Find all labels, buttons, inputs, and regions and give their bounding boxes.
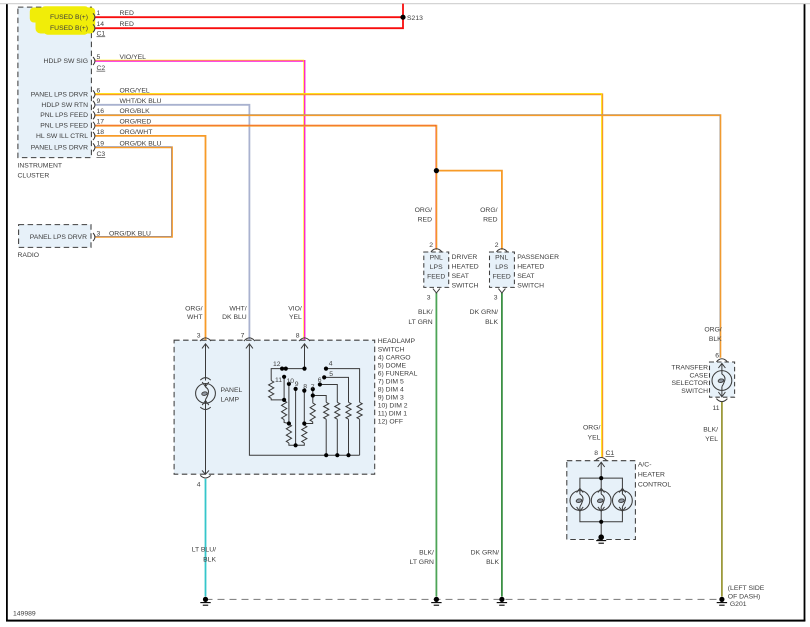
svg-text:VIO/YEL: VIO/YEL: [120, 54, 147, 61]
passenger seat switch pin 3 exit arrow: [498, 289, 505, 293]
resistor R8 (DOME position): [346, 402, 351, 419]
ground bus dashed wire: [206, 598, 722, 600]
cluster pin 16 bracket: [93, 111, 95, 119]
svg-text:ORG/: ORG/: [480, 207, 497, 214]
svg-text:PNL: PNL: [430, 254, 443, 261]
resistor R1 (node 12 to node 11): [269, 381, 274, 399]
svg-text:PANEL LPS DRVR: PANEL LPS DRVR: [31, 144, 88, 151]
a/c-heater bottom bus dot: [599, 520, 603, 524]
wire WHT/DK BLU pin9 to headlamp switch pin7: [95, 105, 249, 340]
svg-text:ORG/RED: ORG/RED: [120, 119, 152, 126]
node 12 bus wire: [271, 369, 304, 381]
passenger heated seat switch box: [490, 252, 515, 287]
svg-text:PNL LPS FEED: PNL LPS FEED: [40, 123, 88, 130]
svg-text:BLK: BLK: [709, 336, 722, 343]
wire BLK/YEL transfer case to ground G201: [721, 401, 723, 597]
svg-text:WHT: WHT: [187, 314, 202, 321]
a/c-heater bottom bus wire: [580, 511, 623, 522]
wire BLK/LT GRN driver seat to ground: [435, 293, 437, 597]
headlamp switch pin 8 entry arc: [299, 338, 310, 341]
page frame border right: [804, 4, 806, 622]
svg-text:RADIO: RADIO: [18, 252, 40, 259]
a/c-heater lamp 2: [591, 491, 611, 511]
svg-text:12) OFF: 12) OFF: [378, 418, 403, 425]
svg-text:14: 14: [97, 21, 105, 28]
svg-text:SEAT: SEAT: [517, 273, 534, 280]
cluster pin 19 bracket: [93, 143, 95, 151]
node 11 chain junction dot: [282, 398, 286, 402]
svg-text:FUSED B(+): FUSED B(+): [50, 14, 88, 21]
panel lamp bottom arrow: [202, 401, 209, 406]
svg-text:(LEFT SIDE: (LEFT SIDE: [728, 585, 765, 592]
svg-text:ORG/DK BLU: ORG/DK BLU: [120, 140, 162, 147]
svg-text:SELECTOR: SELECTOR: [671, 380, 708, 387]
a/c lamp 1 arrows: [577, 488, 584, 492]
node 9 dot: [294, 387, 298, 391]
svg-text:17: 17: [97, 119, 105, 126]
node 8 chain junction dot: [302, 421, 306, 425]
wiper bus dot R7: [335, 453, 339, 457]
wire R1 bottom to node 11 junction: [271, 398, 284, 400]
svg-text:6: 6: [318, 377, 322, 384]
node 5 dot: [322, 375, 326, 379]
svg-text:4: 4: [197, 481, 201, 488]
svg-text:ORG/BLK: ORG/BLK: [120, 108, 151, 115]
svg-text:5) DOME: 5) DOME: [378, 362, 407, 369]
wire ORG/YEL pin6 to a/c-heater control: [95, 94, 602, 457]
headlamp switch pin 4 exit arc: [200, 475, 210, 478]
svg-text:BLK/: BLK/: [419, 550, 434, 557]
wire VIO/YEL pin5 to headlamp switch pin8: [95, 61, 304, 340]
wire panel lamp branch top: [205, 344, 207, 381]
svg-text:HEATER: HEATER: [638, 472, 665, 479]
page frame border bottom: [6, 620, 805, 622]
svg-text:BLK: BLK: [203, 557, 216, 564]
resistor R2 (node 11 to node 10): [282, 401, 287, 420]
svg-text:LPS: LPS: [495, 264, 508, 271]
headlamp switch pin 4 exit arrow: [202, 470, 209, 474]
resistor R5 (node 8 junction up to node 7): [310, 403, 315, 422]
svg-text:C2: C2: [97, 65, 106, 72]
ground symbol under passenger seat wire: [497, 597, 507, 605]
driver seat switch pin 2 entry arc: [431, 249, 442, 252]
svg-text:1: 1: [97, 10, 101, 17]
instrument cluster box: [18, 7, 92, 158]
wire node 6 to parallel resistor R7: [320, 385, 337, 403]
a/c lamp 2 arrows: [598, 488, 605, 492]
node 6 dot: [318, 382, 322, 386]
svg-text:BLK/: BLK/: [418, 309, 433, 316]
svg-text:WHT/: WHT/: [229, 306, 246, 313]
a/c-heater control pin 8 arrow: [598, 462, 605, 467]
a/c-heater feed wire to bus: [600, 462, 602, 478]
svg-text:PANEL: PANEL: [221, 387, 243, 394]
svg-text:19: 19: [97, 140, 105, 147]
a/c-heater control box: [567, 461, 636, 540]
wire R9 bottom to wiper bus: [359, 419, 361, 455]
svg-text:FEED: FEED: [493, 273, 511, 280]
svg-text:C1: C1: [97, 30, 106, 37]
svg-text:LPS: LPS: [430, 264, 443, 271]
svg-text:ORG/: ORG/: [704, 326, 721, 333]
svg-text:9) DIM 3: 9) DIM 3: [378, 394, 404, 401]
page frame border top (light): [0, 2, 810, 5]
svg-text:VIO/: VIO/: [288, 306, 302, 313]
ground G201: [717, 597, 727, 605]
cluster pin 6 bracket: [93, 90, 95, 98]
svg-text:SWITCH: SWITCH: [378, 347, 405, 354]
svg-text:10: 10: [286, 378, 294, 385]
node 10 stub wire: [288, 384, 290, 424]
wire ORG/RED pin17 to seat switches: [95, 126, 436, 250]
svg-text:7: 7: [311, 384, 315, 391]
svg-text:CASE: CASE: [689, 372, 708, 379]
svg-text:SWITCH: SWITCH: [517, 283, 544, 290]
svg-text:3: 3: [494, 295, 498, 302]
node 7 upper dot: [311, 387, 315, 391]
wire ORG/BLK pin16 to transfer case switch pin6: [95, 115, 720, 358]
svg-text:3: 3: [197, 333, 201, 340]
wire VIO/YEL tracer stripe: [95, 60, 304, 339]
node 7 stub wire: [312, 389, 314, 403]
wiper bus dot R6: [324, 453, 328, 457]
node 12 junction dots: [280, 367, 284, 371]
svg-text:WHT/DK BLU: WHT/DK BLU: [120, 98, 162, 105]
transfer case selector switch box: [710, 362, 735, 397]
transfer case switch pin 11 exit arc: [716, 399, 727, 402]
resistor R6 (DIM 5 position): [324, 402, 329, 419]
highlight marker over FUSED B(+) labels: [30, 6, 95, 34]
panel lamp top terminal arc: [200, 378, 210, 380]
svg-text:149989: 149989: [13, 611, 36, 618]
radio box: [19, 225, 91, 248]
headlamp switch pin 8 arrow: [301, 344, 308, 349]
svg-text:PNL: PNL: [495, 254, 508, 261]
a/c lamp 3 arrows: [619, 488, 626, 492]
wire node 4 to parallel resistor R9: [326, 369, 360, 403]
transfer case switch pin 6 entry arc: [716, 359, 727, 362]
svg-text:LT GRN: LT GRN: [410, 559, 434, 566]
svg-text:SEAT: SEAT: [452, 273, 469, 280]
transfer case lamp return wire: [721, 390, 723, 397]
svg-text:5: 5: [329, 371, 333, 378]
svg-text:RED: RED: [120, 10, 134, 17]
svg-text:RED: RED: [418, 217, 432, 224]
passenger seat switch pin 2 entry arc: [496, 249, 507, 252]
wire panel lamp branch bottom: [205, 403, 207, 474]
svg-text:7: 7: [241, 333, 245, 340]
svg-text:BLK: BLK: [485, 319, 498, 326]
driver heated seat switch box: [424, 252, 449, 287]
svg-text:18: 18: [97, 129, 105, 136]
wire ORG/DK BLU tracer stripe: [95, 147, 172, 237]
svg-text:HDLP SW RTN: HDLP SW RTN: [41, 102, 88, 109]
a/c-heater lamp 2 bottom wire: [600, 511, 602, 522]
svg-text:11) DIM 1: 11) DIM 1: [378, 410, 408, 417]
wire node 7 to parallel resistor R6: [313, 396, 326, 403]
resistor R4 (node 9 to node 8): [302, 425, 307, 443]
headlamp switch pin 7 entry arc: [244, 338, 255, 341]
svg-text:ORG/: ORG/: [185, 306, 202, 313]
wire RED pin1 to S213: [95, 16, 403, 18]
transfer case selector switch lamp: [712, 371, 732, 391]
svg-text:BLK/: BLK/: [703, 426, 718, 433]
svg-text:6: 6: [715, 353, 719, 360]
svg-text:A/C-: A/C-: [638, 462, 652, 469]
wire node 9 junction to R4 bottom: [296, 443, 305, 445]
wire R3 bottom to node 9 junction: [289, 443, 296, 445]
cluster pin 9 bracket: [93, 101, 95, 109]
svg-text:PNL LPS FEED: PNL LPS FEED: [40, 112, 88, 119]
svg-text:RED: RED: [120, 21, 134, 28]
wiper bus dot R8: [346, 453, 350, 457]
headlamp switch box: [174, 340, 375, 474]
svg-text:DK GRN/: DK GRN/: [470, 309, 498, 316]
svg-text:YEL: YEL: [289, 314, 302, 321]
svg-text:8: 8: [594, 450, 598, 457]
svg-text:PANEL LPS DRVR: PANEL LPS DRVR: [31, 91, 88, 98]
node 12 / pin8 bus dot: [302, 367, 306, 371]
wire R6 bottom to wiper bus: [325, 419, 327, 455]
svg-text:3: 3: [97, 230, 101, 237]
wire R2 bottom to node 10 junction: [284, 420, 289, 424]
svg-text:10) DIM 2: 10) DIM 2: [378, 402, 408, 409]
headlamp switch pin 3 arrow: [202, 344, 209, 349]
node 4 dot: [324, 367, 328, 371]
transfer case switch pin 6 arrow: [718, 363, 725, 368]
ground symbol under panel lamp wire: [200, 597, 210, 605]
node 10 dot: [287, 382, 291, 386]
svg-text:ORG/WHT: ORG/WHT: [120, 129, 153, 136]
svg-text:9: 9: [295, 381, 299, 388]
svg-text:YEL: YEL: [705, 436, 718, 443]
node 9 stub wire: [295, 389, 297, 445]
cluster pin 5 bracket: [93, 57, 95, 65]
a/c-heater lamp 2 top wire: [600, 478, 602, 490]
headlamp switch pin 3 entry arc: [200, 338, 211, 341]
svg-text:LAMP: LAMP: [221, 397, 240, 404]
splice S213: [400, 15, 405, 20]
wire pin 8 down to node 12 bus: [304, 344, 306, 369]
svg-text:8: 8: [303, 384, 307, 391]
svg-text:11: 11: [275, 377, 282, 384]
node 9 chain junction dot: [294, 443, 298, 447]
svg-text:OF DASH): OF DASH): [728, 593, 760, 600]
svg-text:7) DIM 5: 7) DIM 5: [378, 378, 404, 385]
svg-text:16: 16: [97, 108, 105, 115]
node 7 lower dot: [311, 393, 315, 397]
svg-text:S213: S213: [407, 15, 423, 22]
node 10 chain junction dot: [287, 421, 291, 425]
wire node 5 to parallel resistor R8: [324, 377, 348, 402]
wire ORG/YEL tracer stripe: [95, 94, 602, 457]
cluster pin 1 bracket: [93, 13, 95, 21]
svg-text:ORG/YEL: ORG/YEL: [120, 87, 150, 94]
wire ORG/RED branch to passenger switch: [436, 171, 502, 250]
node 11 stub wire: [283, 377, 285, 401]
cluster pin 18 bracket: [93, 132, 95, 140]
splice dot ORG/RED: [434, 168, 439, 173]
wire ORG/BLK tracer stripe: [95, 115, 720, 358]
svg-text:5: 5: [97, 54, 101, 61]
a/c-heater top bus wire: [580, 478, 623, 490]
radio pin 3 bracket: [93, 233, 95, 241]
panel lamp bottom terminal arc: [200, 407, 210, 409]
svg-text:4) CARGO: 4) CARGO: [378, 354, 411, 361]
svg-text:DK BLU: DK BLU: [222, 314, 247, 321]
svg-text:2: 2: [429, 242, 433, 249]
svg-text:HEATED: HEATED: [452, 264, 479, 271]
svg-text:FEED: FEED: [427, 273, 445, 280]
svg-text:CLUSTER: CLUSTER: [18, 173, 50, 180]
svg-text:SWITCH: SWITCH: [452, 283, 479, 290]
svg-text:4: 4: [329, 361, 333, 368]
wire ORG/DK BLU pin19 to radio pin3: [95, 147, 172, 237]
transfer case lamp feed wire: [721, 363, 723, 370]
svg-text:C1: C1: [606, 450, 615, 457]
svg-text:CONTROL: CONTROL: [638, 482, 671, 489]
svg-text:ORG/: ORG/: [415, 207, 432, 214]
resistor R3 (node 10 to node 9): [286, 424, 291, 443]
svg-text:12: 12: [273, 361, 281, 368]
svg-text:TRANSFER: TRANSFER: [671, 365, 708, 372]
svg-text:LT BLU/: LT BLU/: [192, 547, 216, 554]
node 11 dot: [282, 375, 286, 379]
svg-text:2: 2: [495, 242, 499, 249]
wire LT BLU/BLK headlamp pin4 to ground: [205, 479, 207, 597]
wire R5 bottom to node 8 junction: [304, 422, 312, 424]
a/c-heater lamp 1: [570, 491, 590, 511]
svg-text:HDLP SW SIG: HDLP SW SIG: [44, 58, 88, 65]
svg-text:DK GRN/: DK GRN/: [471, 550, 499, 557]
panel lamp top arrow: [202, 382, 209, 387]
svg-text:11: 11: [712, 405, 719, 412]
svg-text:FUSED B(+): FUSED B(+): [50, 25, 88, 32]
svg-text:HEATED: HEATED: [517, 264, 544, 271]
a/c-heater lamp 3: [613, 491, 633, 511]
driver seat switch pin 3 exit arrow: [433, 289, 440, 293]
a/c-heater control pin 8 entry arc: [596, 458, 607, 461]
svg-text:LT GRN: LT GRN: [408, 319, 432, 326]
svg-text:BLK: BLK: [486, 559, 499, 566]
a/c-heater internal ground: [596, 534, 606, 543]
resistor R9 (CARGO position): [357, 402, 362, 419]
a/c-heater top bus dot: [599, 476, 603, 480]
node 8 stub wire: [303, 391, 305, 426]
svg-text:HL SW ILL CTRL: HL SW ILL CTRL: [36, 133, 88, 140]
svg-text:3: 3: [427, 295, 431, 302]
svg-text:PASSENGER: PASSENGER: [517, 254, 559, 261]
cluster pin 14 bracket: [93, 24, 95, 32]
a/c-heater ground stem wire: [600, 522, 602, 536]
ground symbol under driver seat wire: [431, 597, 441, 605]
svg-text:SWITCH: SWITCH: [681, 388, 708, 395]
svg-text:DRIVER: DRIVER: [452, 254, 478, 261]
svg-text:C3: C3: [97, 151, 106, 158]
wire R7 bottom to wiper bus: [336, 419, 338, 455]
resistor R7 (FUNERAL position): [335, 402, 340, 419]
svg-text:YEL: YEL: [588, 434, 601, 441]
svg-text:ORG/: ORG/: [583, 425, 600, 432]
svg-text:INSTRUMENT: INSTRUMENT: [18, 163, 63, 170]
svg-text:8: 8: [296, 333, 300, 340]
headlamp switch pin 7 arrow: [246, 344, 253, 349]
wire ORG/RED tracer stripe: [95, 125, 436, 249]
svg-text:PANEL LPS DRVR: PANEL LPS DRVR: [30, 234, 87, 241]
panel lamp: [196, 384, 216, 404]
transfer case switch pin 11 exit arrow: [718, 392, 725, 397]
svg-text:9: 9: [97, 98, 101, 105]
svg-text:RED: RED: [483, 217, 497, 224]
wire ORG/WHT pin18 to headlamp switch pin3: [95, 136, 205, 340]
page frame border left: [6, 4, 8, 622]
wire RED pin14 to S213: [95, 4, 403, 29]
svg-text:G201: G201: [730, 601, 747, 608]
svg-text:ORG/DK BLU: ORG/DK BLU: [109, 230, 151, 237]
svg-text:6: 6: [97, 87, 101, 94]
svg-text:HEADLAMP: HEADLAMP: [378, 338, 416, 345]
svg-text:8) DIM 4: 8) DIM 4: [378, 386, 404, 393]
wire R8 bottom to wiper bus: [348, 419, 350, 455]
wiper return bus wire to pin 7: [249, 344, 359, 455]
wire DK GRN/BLK passenger seat to ground: [501, 293, 503, 597]
node 8 dot: [302, 389, 306, 393]
cluster pin 17 bracket: [93, 122, 95, 130]
svg-text:6) FUNERAL: 6) FUNERAL: [378, 370, 418, 377]
